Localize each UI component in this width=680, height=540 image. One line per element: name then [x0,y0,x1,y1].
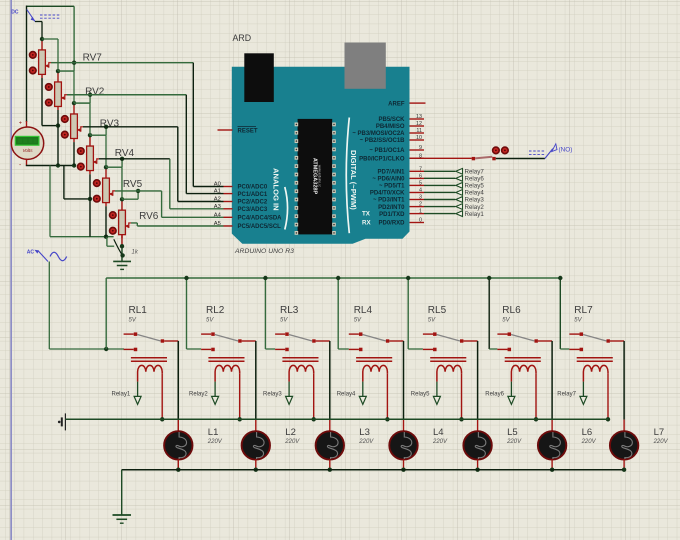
wire jog A1 [185,95,187,194]
svg-text:RV7: RV7 [83,53,103,64]
lamp L7 [610,431,638,459]
pin A3 [224,208,233,210]
wire pin8 to button [410,157,472,159]
node wiper [104,125,108,129]
wire RV7 bottom elbow [42,125,58,127]
junction [120,253,124,257]
terminal Relay5 input [411,382,441,405]
svg-text:11: 11 [416,128,422,134]
pin L1 top [177,420,179,431]
svg-text:DIGITAL (~PWM): DIGITAL (~PWM) [349,150,358,210]
svg-text:ATMEGA328P: ATMEGA328P [312,158,318,195]
svg-text:0: 0 [419,218,422,224]
svg-text:A2: A2 [214,197,221,203]
svg-text:220V: 220V [358,439,374,445]
junction [104,347,108,351]
node coil RL6 [534,417,538,421]
pin ~PB3/MOSI/OC2A [410,132,425,134]
node L4 bottom [401,468,405,472]
svg-text:Relay6: Relay6 [465,176,485,183]
NO switch dashes [529,151,545,155]
pin L4 top [403,420,405,431]
wire left rail to voltmeter [26,6,28,122]
wire switch out [35,21,42,23]
wire pot top elbow h [90,134,106,136]
resistor RV2 (potentiometer) [55,71,67,110]
svg-text:12: 12 [416,121,422,127]
voltmeter LCD [15,136,39,145]
svg-text:L1: L1 [208,427,219,438]
pin PD7/AIN1 [410,170,425,172]
pin PB0/ICP1/CLKO [410,157,425,159]
wire wiper to next pot [73,63,75,71]
wire to pot top [106,166,122,168]
node pot1 top [40,37,44,41]
pin ~PD3/INT1 [410,199,425,201]
pin A5 [224,225,233,227]
svg-text:5V: 5V [129,318,137,324]
terminal Relay7 [456,168,463,174]
node coil RL2 [238,417,242,421]
junction [56,123,60,127]
wire RL6 feed [488,278,490,349]
pin L5 bottom [477,459,479,469]
switch lever 1k [106,237,108,247]
wire into A5 [137,225,223,227]
pin PD0/RXD [410,222,425,224]
svg-text:7: 7 [419,166,422,172]
wire RL7 to L7 [623,341,625,420]
wire RV4 bottom [89,174,91,237]
wire RV2 to A1 h [67,94,186,96]
junction [56,163,60,167]
node L3 bottom [328,468,332,472]
wire RL5 to L5 [477,341,479,420]
svg-text:5V: 5V [428,318,436,324]
terminal Relay2 input [189,382,219,405]
NO switch lever [545,144,557,159]
svg-text:PC0/ADC0: PC0/ADC0 [238,185,268,191]
resistor RV3 (potentiometer) [71,103,83,142]
push button [472,157,496,160]
wire into A3 [170,208,224,210]
relay RL7 [569,305,624,419]
actuator buttons RV5 [94,180,101,202]
wire voltmeter- [26,165,74,167]
pin L5 top [477,420,479,431]
wire RL5 feed h [408,348,423,350]
wire RV5 to A4 h [115,190,162,192]
svg-text:Volts: Volts [22,148,33,153]
wire to pot top [122,198,138,200]
pin AREF [410,102,425,104]
wire pot top elbow v [89,103,91,135]
left bracket [285,187,288,230]
wire RV6 to ground [121,246,123,261]
svg-text:5V: 5V [502,318,510,324]
lamp L6 [538,431,566,459]
AC source symbol [34,250,66,262]
terminal Relay2 [456,204,463,210]
wire RV4 to A3 h [99,158,170,160]
wire pot top elbow h [106,166,122,168]
button actuators [493,147,509,154]
node L6 bottom [550,468,554,472]
right bracket [346,118,349,234]
svg-text:PC2/ADC2: PC2/ADC2 [238,200,268,206]
junction [72,163,76,167]
svg-text:L6: L6 [582,427,593,438]
actuator buttons RV6 [110,212,117,234]
DC switch actuator dashes [40,15,60,18]
svg-text:RV5: RV5 [123,179,143,190]
resistor RV6 (potentiometer) [119,199,131,238]
terminal Relay1 input [112,382,142,405]
svg-text:PD1/TXD: PD1/TXD [379,212,405,218]
wire RL4 feed h [338,348,349,350]
pin PD1/TXD [410,213,425,215]
node coil RL1 [160,417,164,421]
node RL3 feed [263,276,267,280]
svg-text:AC: AC [27,250,35,256]
node pot3 top [72,101,76,105]
svg-text:A5: A5 [214,221,221,227]
node pot4 top [88,133,92,137]
svg-text:Relay4: Relay4 [337,392,356,398]
svg-text:RL7: RL7 [574,305,593,316]
svg-text:1: 1 [419,209,422,215]
svg-text:Relay2: Relay2 [189,392,208,398]
wire relay bus [106,277,560,279]
svg-text:10: 10 [416,135,422,141]
pin A4 [224,216,233,218]
wire jog A2 [177,127,179,202]
wire pin4 to terminal [424,191,455,193]
svg-text:220V: 220V [653,439,669,445]
relay RL4 [349,305,404,419]
svg-text:PD7/AIN1: PD7/AIN1 [377,170,405,176]
wire pin2 to terminal [424,206,455,208]
wire RL6 to L6 [551,341,553,420]
actuator buttons RV2 [46,84,53,106]
svg-text:RV6: RV6 [139,211,159,222]
relay RL6 [497,305,552,419]
wire lamp bus [122,469,623,471]
wire RV3 bottom [73,142,75,165]
node RL5 feed [406,276,410,280]
svg-text:~ PB3/MOSI/OC2A: ~ PB3/MOSI/OC2A [352,131,405,137]
wire RV3 to A2 h [83,126,178,128]
svg-text:PB0/ICP1/CLKO: PB0/ICP1/CLKO [359,157,405,163]
wire jog A4 [161,191,163,217]
node pot5 top [104,165,108,169]
svg-text:PC5/ADC5/SCL: PC5/ADC5/SCL [238,224,282,230]
wire RL1 to L1 [177,341,179,420]
svg-text:1k: 1k [132,250,139,256]
svg-text:220V: 220V [284,439,300,445]
svg-text:L4: L4 [433,427,444,438]
wire chain step h [64,198,90,200]
svg-text:L7: L7 [654,427,665,438]
svg-text:AREF: AREF [388,101,405,107]
svg-text:PC4/ADC4/SDA: PC4/ADC4/SDA [238,216,283,222]
node L7 bottom [622,468,626,472]
wire pin1 to terminal [424,213,455,215]
svg-text:PB4/MISO: PB4/MISO [376,124,405,130]
lamp L1 [164,431,192,459]
wire RV7 bottom [41,78,43,126]
svg-text:5V: 5V [280,318,288,324]
pin AREF stub [424,102,426,104]
svg-text:RL6: RL6 [502,305,521,316]
wire RV6 step [136,223,138,226]
wire RV6 h [131,222,137,224]
svg-text:Relay2: Relay2 [465,204,485,211]
battery terminal bus2 [58,413,66,430]
wire RL7 feed h [560,348,569,350]
node coil RL7 [606,417,610,421]
pin PD4/T0/XCK [410,192,425,194]
terminal Relay6 [456,175,463,181]
svg-text:3: 3 [419,195,422,201]
wire RL7 feed [559,278,561,349]
node wiper [88,93,92,97]
terminal Relay1 [456,211,463,217]
svg-text:RESET: RESET [238,129,258,135]
wire chain step [63,166,65,199]
wire pin7 to terminal [424,170,455,172]
relay RL3 [275,305,330,419]
wire RL2 feed h [187,348,202,350]
svg-text:Relay7: Relay7 [465,169,485,176]
wire pot top elbow v [105,135,107,167]
relay RL2 [201,305,256,419]
resistor RV5 (potentiometer) [103,167,115,206]
terminal Relay6 input [485,382,515,405]
svg-text:5V: 5V [354,318,362,324]
svg-text:220V: 220V [432,439,448,445]
resistor RV7 (potentiometer) [39,39,51,78]
relay RL5 [423,305,478,419]
pin L2 bottom [255,459,257,469]
voltmeter - pin [26,159,28,165]
wire coil bus [65,418,608,420]
svg-text:13: 13 [416,114,422,120]
wire RL3 to L3 [329,341,331,420]
pin ~PD5/T1 [410,184,425,186]
node coil RL3 [312,417,316,421]
wire wiper to next pot [137,191,139,199]
DC switch lever [27,10,35,22]
pin A2 [224,201,233,203]
pin RV6 bottom [121,234,123,246]
wire DC+ top [27,5,75,7]
wire to pot top [90,134,106,136]
node L1 bottom [176,468,180,472]
chip pins [295,123,336,235]
pin L4 bottom [403,459,405,469]
pin L3 top [329,420,331,431]
ground under 1k [113,261,131,269]
wire RL2 to L2 [255,341,257,420]
terminal Relay5 [456,183,463,189]
voltmeter body [11,127,43,159]
node wiper [136,189,140,193]
wire chain bottom [50,236,114,238]
pin ~PB1/OC1A [410,149,425,151]
pin PB4/MISO [410,125,425,127]
wire RV5 bottom [105,206,107,237]
wire RL3 feed [264,278,266,349]
svg-text:PD0/RXD: PD0/RXD [378,221,405,227]
wire to RV7 top [41,22,43,40]
junction [88,197,92,201]
sheet border [10,0,12,540]
pin PB5/SCK [410,118,425,120]
svg-text:Relay1: Relay1 [112,392,131,398]
lamp L2 [242,431,270,459]
wire jog A0 [192,63,194,187]
pin L6 bottom [551,459,553,469]
junction [120,244,124,248]
svg-text:L3: L3 [359,427,370,438]
svg-text:~ PD5/T1: ~ PD5/T1 [379,184,405,190]
wire into A2 [178,201,224,203]
wire pot top elbow v [73,71,75,103]
node L2 bottom [254,468,258,472]
svg-text:A0: A0 [214,182,221,188]
svg-text:Relay6: Relay6 [485,392,504,398]
svg-text:TX: TX [362,211,371,218]
actuator buttons RV3 [62,116,69,138]
voltmeter + pin [26,121,28,127]
wire into A1 [186,193,223,195]
svg-text:RL1: RL1 [129,305,148,316]
svg-text:A3: A3 [214,204,221,210]
svg-text:PC3/ADC3: PC3/ADC3 [238,207,268,213]
ground bottom [113,515,132,523]
actuator buttons RV4 [78,148,85,170]
pin ~PD6/AIN0 [410,177,425,179]
terminal Relay4 [456,190,463,196]
wire pot top elbow v [121,167,123,199]
node RL2 feed [184,276,188,280]
wire pin3 to terminal [424,199,455,201]
wire pot top elbow h [42,38,58,40]
svg-text:RL4: RL4 [354,305,373,316]
wire AC drop [48,262,50,350]
wire RL4 to L4 [403,341,405,420]
svg-text:ARD: ARD [233,33,252,43]
arduino board [232,67,410,244]
wire jog A3 [169,159,171,209]
wire pot top elbow h [74,102,90,104]
pin L7 top [623,420,625,431]
wire into A4 [162,216,224,218]
svg-text:PC1/ADC1: PC1/ADC1 [238,192,268,198]
svg-text:Relay4: Relay4 [465,190,485,197]
lamp L5 [463,431,491,459]
terminal Relay3 input [263,382,293,405]
svg-text:RL3: RL3 [280,305,299,316]
svg-text:4: 4 [419,188,422,194]
svg-text:5: 5 [419,180,422,186]
svg-text:Relay5: Relay5 [465,183,485,190]
svg-text:5V: 5V [574,318,582,324]
svg-text:5V: 5V [206,318,214,324]
lamp L3 [316,431,344,459]
wire RL1 feed [105,278,107,349]
svg-text:L2: L2 [285,427,296,438]
svg-text:ANALOG IN: ANALOG IN [271,168,280,211]
wire pot top elbow v [57,39,59,71]
wire RL4 feed [337,278,339,349]
wire RL2 feed [186,278,188,349]
wire wiper to next pot [105,127,107,135]
svg-text:2: 2 [419,202,422,208]
wire RL3 feed h [265,348,275,350]
terminal Relay7 input [557,382,587,405]
pin L2 top [255,420,257,431]
pin L6 top [551,420,553,431]
wire DC to RV7 wiper node [73,6,75,62]
terminal Relay3 [456,197,463,203]
pin PD2/INT0 [410,206,425,208]
pin L1 bottom [177,459,179,469]
svg-text:6: 6 [419,173,422,179]
pin A1 [224,193,233,195]
usb connector [244,53,273,102]
svg-text:Relay3: Relay3 [263,392,282,398]
wire to ground [121,470,123,515]
pin RESET stub [218,129,233,131]
svg-text:220V: 220V [506,439,522,445]
svg-text:220V: 220V [207,439,223,445]
relay RL1 [124,305,179,419]
svg-text:A1: A1 [214,189,221,195]
svg-text:DC: DC [11,9,19,15]
svg-text:9: 9 [419,145,422,151]
pin ~PB2/SS/OC1B [410,139,425,141]
wire pin6 to terminal [424,177,455,179]
svg-text:RV4: RV4 [115,148,135,159]
pin A0 [224,186,233,188]
svg-text:Relay3: Relay3 [465,197,485,204]
pin L7 bottom [623,459,625,469]
svg-text:~ PD6/AIN0: ~ PD6/AIN0 [372,177,405,183]
pin L3 bottom [329,459,331,469]
svg-text:~ PD3/INT1: ~ PD3/INT1 [373,198,405,204]
wire RV7 to A0 h [51,62,193,64]
svg-text:ARDUINO UNO R3: ARDUINO UNO R3 [234,248,294,255]
node coil RL5 [459,417,463,421]
node RL4 feed [336,276,340,280]
wire into A0 [193,186,223,188]
resistor RV4 (potentiometer) [87,135,99,174]
terminal Relay4 input [337,382,367,405]
node RL6 feed [487,276,491,280]
wire button to NO switch [496,158,545,160]
svg-text:(NO): (NO) [559,147,573,154]
wire wiper to next pot [121,159,123,167]
junction [104,235,108,239]
node coil RL4 [385,417,389,421]
svg-text:RX: RX [362,220,371,227]
wire AC to RL1 [49,348,124,350]
svg-text:PD4/T0/XCK: PD4/T0/XCK [370,191,405,197]
actuator buttons RV7 [30,52,37,74]
wire wiper to next pot [89,95,91,103]
